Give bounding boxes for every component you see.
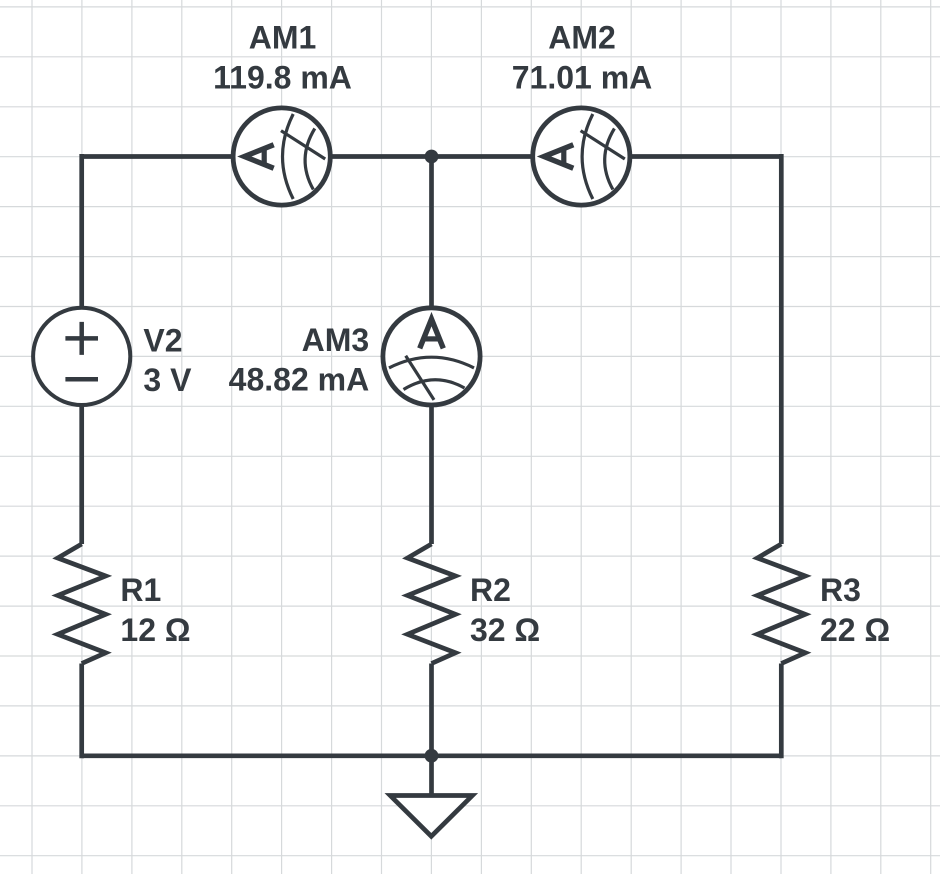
svg-text:AM3: AM3 <box>302 322 370 358</box>
wire top rail <box>82 154 782 159</box>
wire right branch <box>779 154 784 758</box>
node junction top <box>425 150 439 164</box>
svg-text:22 Ω: 22 Ω <box>820 612 890 648</box>
svg-text:12 Ω: 12 Ω <box>120 612 190 648</box>
svg-text:3 V: 3 V <box>143 362 192 398</box>
svg-text:119.8 mA: 119.8 mA <box>213 59 352 95</box>
resistor R2 <box>408 544 456 664</box>
node junction bottom <box>425 749 439 763</box>
svg-text:32 Ω: 32 Ω <box>470 612 540 648</box>
svg-text:V2: V2 <box>143 323 182 359</box>
voltage source V2 <box>33 308 130 405</box>
svg-text:AM2: AM2 <box>548 20 616 56</box>
svg-text:71.01 mA: 71.01 mA <box>512 59 653 95</box>
svg-text:R3: R3 <box>820 572 861 608</box>
wire middle branch <box>429 157 434 756</box>
wire bottom rail <box>82 753 782 758</box>
svg-text:R1: R1 <box>120 572 161 608</box>
ammeter AM1 <box>233 108 330 205</box>
ammeter AM3 <box>383 308 480 405</box>
ammeter AM2 <box>533 108 630 205</box>
svg-text:R2: R2 <box>470 572 511 608</box>
svg-text:AM1: AM1 <box>249 20 317 56</box>
resistor R1 <box>58 544 106 664</box>
svg-text:48.82 mA: 48.82 mA <box>229 362 370 398</box>
wire left branch <box>79 154 84 758</box>
resistor R3 <box>757 544 805 664</box>
ground <box>390 756 472 837</box>
